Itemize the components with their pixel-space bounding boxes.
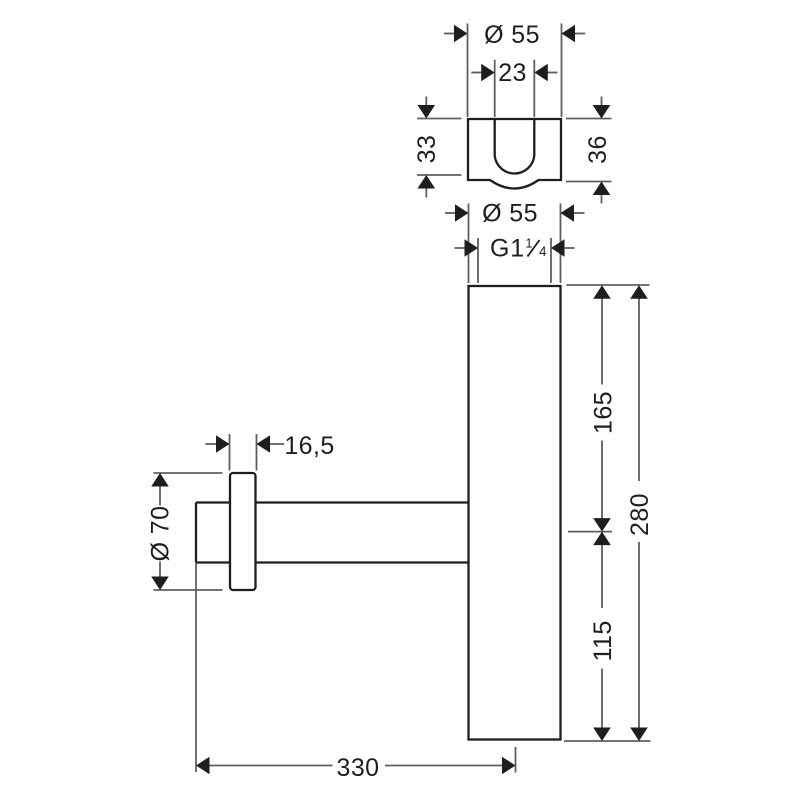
svg-text:280: 280 <box>626 493 654 536</box>
svg-text:115: 115 <box>589 620 617 661</box>
svg-text:1: 1 <box>526 237 533 251</box>
svg-text:4: 4 <box>539 244 547 259</box>
svg-text:Ø 70: Ø 70 <box>146 506 174 562</box>
svg-text:33: 33 <box>413 135 441 164</box>
svg-text:16,5: 16,5 <box>284 432 334 460</box>
svg-text:G1: G1 <box>490 235 525 263</box>
svg-text:23: 23 <box>498 59 527 87</box>
svg-text:Ø 55: Ø 55 <box>484 21 540 49</box>
svg-text:36: 36 <box>584 135 612 164</box>
svg-text:330: 330 <box>337 754 380 782</box>
svg-text:165: 165 <box>589 391 617 434</box>
svg-text:Ø 55: Ø 55 <box>482 200 538 228</box>
